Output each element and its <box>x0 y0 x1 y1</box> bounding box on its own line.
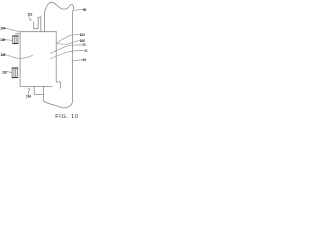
svg-text:110: 110 <box>2 71 7 75</box>
svg-text:106: 106 <box>0 38 5 42</box>
svg-text:102: 102 <box>80 33 85 37</box>
svg-text:FIG. 10: FIG. 10 <box>55 114 79 120</box>
svg-text:104: 104 <box>0 27 5 31</box>
svg-text:90: 90 <box>83 8 87 12</box>
svg-text:98: 98 <box>82 43 86 47</box>
svg-text:96: 96 <box>84 49 88 53</box>
svg-text:112: 112 <box>27 13 32 17</box>
svg-text:94: 94 <box>83 58 87 62</box>
svg-text:108: 108 <box>0 53 5 57</box>
svg-text:114: 114 <box>26 95 31 99</box>
